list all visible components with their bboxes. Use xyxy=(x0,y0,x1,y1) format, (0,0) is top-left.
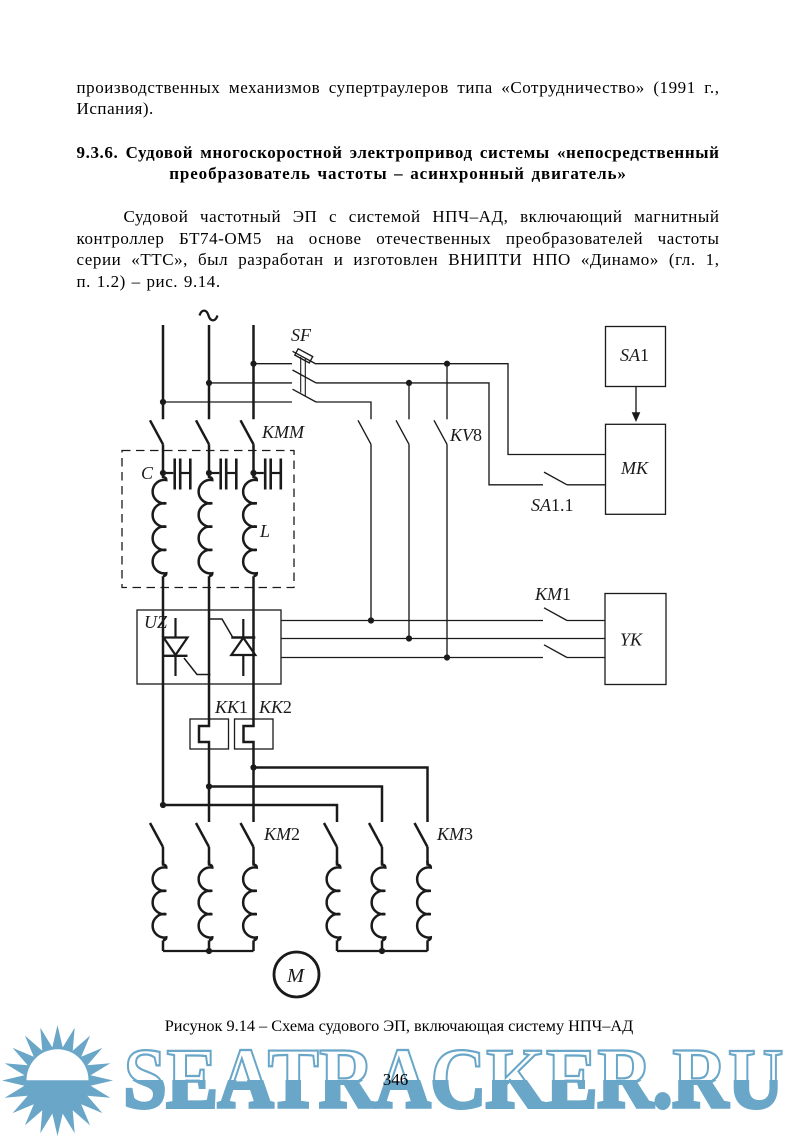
wire branch phase B to KM3 xyxy=(209,787,382,823)
coil winding W2 phase A xyxy=(327,861,341,941)
thermal relay KK2 box xyxy=(235,719,274,749)
thyristor VS1 cathode lead xyxy=(174,656,176,676)
wire KM2 pole A lower xyxy=(162,847,165,864)
wire winding W1 phase C to star bus xyxy=(252,940,255,951)
node KV8 tap on pole2 wire xyxy=(406,380,412,386)
contact KV8 pole3 blade xyxy=(434,420,447,444)
wire phase A coil to UZ xyxy=(162,576,165,805)
wire KV8 pole2 lower xyxy=(408,444,410,638)
wire winding W2 phase C to star bus xyxy=(426,940,429,951)
capacitor C phase B xyxy=(212,472,219,474)
coil winding W1 phase B xyxy=(199,861,213,941)
wire winding W2 phase A to star bus xyxy=(336,940,339,951)
svg-text:L: L xyxy=(259,521,270,541)
wire SF pole2 left xyxy=(209,382,292,384)
coil winding W2 phase C xyxy=(417,861,431,941)
circuit breaker SF indicator rectangle xyxy=(295,349,313,363)
wire SF pole1 right to corner xyxy=(316,364,606,455)
contact KM3 pole C blade xyxy=(415,823,428,847)
wire phase B vertical (middle) xyxy=(208,325,211,419)
coil winding W1 phase C xyxy=(243,861,257,941)
circuit breaker SF linkage bars xyxy=(300,357,302,393)
wire phase B below KMM xyxy=(208,444,211,473)
wire UZ output3 xyxy=(281,657,543,659)
wire phase B below KK1 xyxy=(208,749,211,822)
capacitor C phase A xyxy=(166,472,173,474)
wire phase C below KMM xyxy=(252,444,255,473)
thermal relay KK1 box xyxy=(190,719,229,749)
wire SF pole1 left xyxy=(254,363,293,365)
contact KM1 pole1 blade xyxy=(544,608,567,621)
svg-text:SA1: SA1 xyxy=(620,345,649,365)
contact KM2 pole C blade xyxy=(241,823,254,847)
converter UZ box xyxy=(137,610,281,684)
controller MK box xyxy=(606,424,666,514)
thermal relay KK2 heater xyxy=(244,719,254,749)
paragraph 1 line 2 xyxy=(77,98,720,120)
thyristor VS1 anode lead xyxy=(174,618,176,638)
node KV8 tap on pole1 wire xyxy=(444,361,450,367)
wire SF pole3 right turning down xyxy=(316,402,371,419)
node phase B tap xyxy=(206,380,212,386)
coil winding W1 phase A xyxy=(153,861,167,941)
wire star bus W2 xyxy=(337,950,428,952)
wire KM1 pole1 to YK xyxy=(567,620,605,622)
coil winding W2 phase B xyxy=(372,861,386,941)
wire KM2 pole B lower xyxy=(208,847,211,864)
svg-text:КМ2: КМ2 xyxy=(263,824,300,844)
wire phase C below KK2 xyxy=(252,749,255,822)
wire phase A vertical (left) xyxy=(162,325,165,419)
wire KM3 pole C lower xyxy=(426,847,429,864)
wire SF pole3 left xyxy=(163,401,292,403)
contact SA1.1 blade xyxy=(544,472,567,485)
capacitor C phase C xyxy=(257,472,264,474)
svg-text:КМ3: КМ3 xyxy=(436,824,473,844)
heading line 1 xyxy=(77,142,720,164)
contact KM3 pole B blade xyxy=(369,823,382,847)
svg-text:КК1: КК1 xyxy=(214,697,248,717)
node star point W1 xyxy=(206,948,212,954)
svg-text:UZ: UZ xyxy=(144,612,168,632)
wire phase B coil to KK1 xyxy=(208,576,211,719)
inductor L phase B xyxy=(199,473,213,576)
wire branch phase C to KM3 xyxy=(254,768,428,823)
svg-text:КК2: КК2 xyxy=(258,697,292,717)
node UZ output3 junction xyxy=(444,654,450,660)
node UZ output1 junction xyxy=(368,617,374,623)
svg-text:М: М xyxy=(286,965,306,987)
node phase A tap xyxy=(160,399,166,405)
contact KM1 pole2 blade xyxy=(544,645,567,658)
svg-text:КММ: КММ xyxy=(261,422,305,442)
node star point W2 xyxy=(379,948,385,954)
circuit breaker SF pole3 blade xyxy=(293,389,317,402)
contact KMM pole A blade xyxy=(150,420,163,444)
node branch phase C xyxy=(250,764,256,770)
node branch phase B xyxy=(206,783,212,789)
contact KV8 pole1 blade xyxy=(358,420,371,444)
switch SA1 box xyxy=(606,327,666,387)
svg-text:SF: SF xyxy=(291,325,312,345)
node filter phase B xyxy=(206,470,212,476)
contact KM2 pole B blade xyxy=(196,823,209,847)
circuit breaker SF pole1 blade xyxy=(293,351,317,364)
wire KM2 pole C lower xyxy=(252,847,255,864)
page number xyxy=(0,1069,791,1091)
wire KV8 pole1 lower xyxy=(370,444,372,620)
inductor L phase A xyxy=(153,473,167,576)
wire SA1.1 to MK xyxy=(567,484,606,486)
wire star bus W1 xyxy=(163,950,254,952)
node filter phase A xyxy=(160,470,166,476)
svg-text:SA1.1: SA1.1 xyxy=(531,495,574,515)
figure caption xyxy=(4,1015,791,1037)
svg-text:КМ1: КМ1 xyxy=(534,584,571,604)
contact KMM pole B blade xyxy=(196,420,209,444)
thyristor VS2 triangle xyxy=(231,638,255,655)
contact KM2 pole A blade xyxy=(150,823,163,847)
svg-text:C: C xyxy=(141,463,154,483)
wire KM3 pole B lower xyxy=(381,847,384,864)
paragraph 1 line 1 xyxy=(77,77,720,99)
node filter phase C xyxy=(250,470,256,476)
watermark sun logo xyxy=(2,1025,113,1136)
AC supply symbol ~ xyxy=(200,311,218,321)
wire KV8 pole3 lower xyxy=(446,444,448,657)
node phase C tap xyxy=(250,361,256,367)
node UZ output2 junction xyxy=(406,635,412,641)
contact KM3 pole A blade xyxy=(324,823,337,847)
svg-text:KV8: KV8 xyxy=(449,425,482,445)
wire winding W2 phase B to star bus xyxy=(381,940,384,951)
wire KM3 pole A lower xyxy=(336,847,339,864)
wire KV8 pole3 upper xyxy=(446,364,448,420)
thyristor VS1 triangle xyxy=(164,638,188,656)
thyristor VS1 gate xyxy=(184,658,211,675)
watermark text SEATRACKER.RU xyxy=(124,1030,784,1126)
filter block dashed outline xyxy=(122,451,294,588)
wire UZ output1 xyxy=(281,620,543,622)
wire KV8 pole2 upper xyxy=(408,383,410,419)
wire branch phase A to KM3 xyxy=(163,805,337,822)
contact KV8 pole2 blade xyxy=(396,420,409,444)
wire winding W1 phase B to star bus xyxy=(208,940,211,951)
svg-text:YK: YK xyxy=(620,630,643,650)
wire phase A below KMM xyxy=(162,444,165,473)
contact KMM pole C blade xyxy=(241,420,254,444)
svg-text:MK: MK xyxy=(620,458,649,478)
motor M circle xyxy=(274,952,319,997)
thyristor VS2 cathode lead xyxy=(242,619,244,638)
wire winding W1 phase A to star bus xyxy=(162,940,165,951)
node branch phase A xyxy=(160,802,166,808)
thyristor VS2 gate xyxy=(209,619,232,637)
thyristor VS2 cathode bar xyxy=(231,636,255,638)
wire UZ output2 xyxy=(281,638,605,640)
wire phase C vertical (right) xyxy=(252,325,255,419)
arrow SA1 to MK xyxy=(635,387,637,414)
brake YK box xyxy=(605,594,666,685)
thyristor VS1 cathode bar xyxy=(164,655,188,657)
thermal relay KK1 heater xyxy=(199,719,209,749)
thyristor VS2 anode lead xyxy=(242,655,244,676)
wire SF pole2 right to corner xyxy=(316,383,543,485)
wire KM1 pole2 to YK xyxy=(567,657,605,659)
inductor L phase C xyxy=(243,473,257,576)
paragraph 2 xyxy=(77,206,720,228)
circuit breaker SF pole2 blade xyxy=(293,370,317,383)
wire phase C coil to KK2 xyxy=(252,576,255,719)
